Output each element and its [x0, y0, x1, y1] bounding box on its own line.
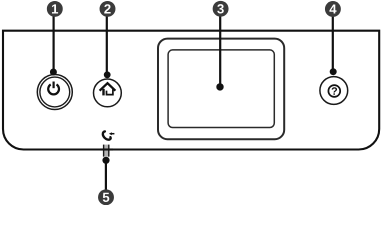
- home icon: [100, 83, 116, 95]
- callout 2 bubble: [100, 1, 116, 17]
- power icon: [48, 82, 59, 95]
- help icon question mark: [332, 87, 337, 95]
- callout 4 leader line: [332, 15, 334, 71]
- callout 1 bubble: [47, 1, 63, 17]
- panel bottom line over LED: [100, 148, 113, 150]
- power button outer ring: [37, 75, 72, 110]
- callout 2 dot: [104, 71, 111, 78]
- callout 4 bubble: [325, 1, 341, 17]
- help icon circle: [328, 85, 340, 97]
- callout 3 dot: [216, 83, 223, 90]
- lcd screen: [168, 50, 274, 128]
- callout 3 leader line: [219, 15, 221, 86]
- indicator LED: [103, 145, 109, 157]
- callout 4 dot: [330, 68, 337, 75]
- callout 5 leader line: [105, 161, 107, 191]
- power button inner ring: [40, 77, 70, 107]
- lcd outer bezel: [158, 39, 284, 140]
- callout 1 dot: [50, 69, 57, 76]
- home button: [94, 79, 122, 107]
- help button: [320, 77, 348, 105]
- callout 5 dot: [102, 157, 109, 164]
- fax received icon: incoming arrow: [109, 132, 115, 135]
- callout 3 bubble: [213, 1, 229, 17]
- callout 1 leader line: [52, 15, 54, 71]
- callout 2 leader line: [106, 15, 108, 74]
- callout 5 bubble: [98, 189, 114, 205]
- fax received icon: phone receiver: [103, 131, 111, 139]
- panel outline: [3, 31, 379, 150]
